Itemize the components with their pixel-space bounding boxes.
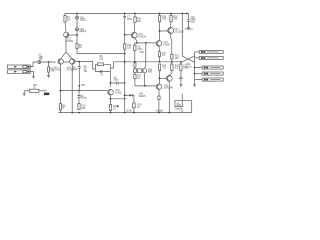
resistor R12 [124,35,132,50]
svg-text:2SА1943: 2SА1943 [164,87,174,90]
node VT8 rail [168,112,170,114]
transistor VT3 [67,59,75,72]
ground zobel [180,85,183,87]
resistor R14 [134,17,142,23]
wire R16 column [159,14,161,41]
resistor R21 [171,55,180,62]
node R19 rail [133,112,135,114]
wire drive upper [135,42,156,44]
wire R18 down [159,70,161,84]
wire VT1 collector to VT6 base [61,90,108,92]
resistor R10 [78,104,86,110]
inductor L1 [175,101,184,113]
wire crossover B [182,56,194,62]
svg-text:63В: 63В [39,58,43,61]
svg-text:ЗЗК: ЗЗК [81,107,86,110]
wire crossover A [182,56,194,62]
label speaker [186,63,192,68]
wire XS2 to ground [30,72,33,77]
diode VD6 label [139,93,146,98]
wire stub row5 [195,79,203,81]
resistor R16 [158,15,166,22]
node feedback divider mid [78,90,80,92]
node bias column top [145,42,147,44]
transistor VT6 [108,89,123,95]
node zobel [180,61,182,63]
resistor R11 [58,91,66,113]
wire VT5 collector [134,38,137,43]
connector speaker row5 [202,78,223,81]
wire R1 to VT2 [65,22,66,32]
wire stub row2 [195,57,200,59]
connector speaker row4 [202,72,223,75]
connector speaker row3 [202,66,223,69]
transistor VT7 upper output [168,28,194,34]
svg-text:2SС5200: 2SС5200 [174,30,184,33]
wire to VT8 emitter [169,70,172,75]
node rail R14 [134,13,136,15]
node top rail LED tap [76,13,78,15]
capacitor C10 [187,14,196,28]
node VT3 collector rail [71,112,73,114]
wire output down stub [181,94,183,101]
node C5 tap [110,82,112,84]
node VT6 collector split [110,98,112,100]
wire VT7 emitter [170,14,172,28]
node output line R17 [159,61,161,63]
wire output node line [114,61,183,63]
node collector leg rail [124,112,126,114]
wire VT7 collector [171,34,172,55]
node output line VT7 [171,61,173,63]
diode VD5 [78,84,86,87]
wire XS1 to input [30,62,33,67]
wire stub row3 [195,67,203,69]
diode HL1 [76,16,88,21]
wire VT8 collector [168,81,170,112]
network bias chain [133,68,152,73]
transistor VT9 bias [142,68,147,73]
svg-text:КД105: КД105 [139,95,146,98]
svg-text:КД521: КД521 [80,19,87,22]
wire rail riser right [182,101,192,113]
node VT1 collector [60,90,62,92]
svg-text:КД521: КД521 [79,30,86,33]
wire diff pair link [63,61,69,63]
capacitor C6 [77,91,87,104]
node R10 rail [78,112,80,114]
wire VT6 collector [111,95,125,99]
wire VT8 base [160,77,167,79]
wire VT10 down [158,90,160,97]
capacitor C8 miller [134,43,144,62]
transistor VT8 lower output [164,76,174,90]
node VT7 base tap [159,30,161,32]
node rail cap tap [186,13,188,15]
node bias lower [144,85,146,87]
resistor R19 [125,94,142,113]
network ground lift [23,84,50,96]
node VT8 base tap [159,77,161,79]
node diode tap [124,94,126,96]
svg-text:63В: 63В [191,21,195,24]
transistor VT10 lower driver [156,84,162,90]
svg-text:100мк: 100мк [81,97,88,100]
wire bias to lower drive [144,73,146,86]
ground R2 [47,72,50,77]
node R13 rail [110,112,112,114]
wire diff pair tail [61,52,72,59]
wire LED column [77,14,125,54]
resistor R17 [158,46,167,62]
wire stub row1 [195,51,200,53]
wire VT3 base feedback [75,62,96,69]
node C8 output line [134,61,136,63]
wire input line [33,61,56,63]
wire right vertical [181,14,183,57]
resistor R20 [170,15,178,22]
node output line cross [124,61,126,63]
node row4 [194,73,196,75]
ground C10 [187,28,190,30]
svg-text:КТ961А: КТ961А [138,35,146,38]
resistor R18 [158,64,167,70]
node rail right vertical [181,13,183,15]
node input [48,61,50,63]
transistor VT2 current source [64,32,74,43]
transistor VT5 [131,32,146,38]
connector speaker row2 [199,56,223,59]
svg-text:12,6В: 12,6В [126,110,132,113]
capacitor C7 [123,14,132,35]
wire bias column [145,43,146,68]
resistor R2 [48,62,55,73]
capacitor C5 [111,76,126,84]
wire bias left leg [134,72,136,74]
network R8 C4 feedback [95,55,110,76]
wire speaker bus [194,52,196,81]
capacitor C1 [38,53,43,63]
resistor R23 [171,62,180,71]
svg-text:КТ626: КТ626 [163,43,170,46]
svg-text:100н: 100н [183,67,189,70]
node row3 [194,67,196,69]
svg-text:100н: 100н [127,18,133,21]
resistor R4 [76,44,83,50]
resistor R1 [64,14,71,23]
wire bottom supply rail [58,112,192,114]
node feedback divider top [78,61,80,63]
svg-text:VD5: VD5 [81,84,86,87]
capacitor C11 zobel [179,71,182,85]
wire drive lower [135,85,156,87]
transistor VT4 driver [156,41,170,47]
transistor VT1 [54,59,64,72]
wire VT7 base [160,30,168,32]
wire RC to VT6 emitter [109,72,111,87]
input connector XS1 [7,65,30,68]
wire VT2 base [69,34,77,36]
wire R14 to VT5 emitter [133,14,136,33]
node wire53 junction [124,53,126,55]
wire VT5 column down [124,49,126,112]
svg-text:КТ961: КТ961 [115,92,122,95]
node VT2 base junction [76,34,78,36]
resistor R13 [109,99,118,113]
ground input shield [32,76,35,78]
svg-text:Общий: Общий [156,109,164,112]
wire VT1 collector [60,64,62,90]
node VT5 collector [136,42,138,44]
resistor R24 zobel [180,62,189,71]
wire RC to output line [110,62,113,68]
diode HL2 [76,28,87,33]
resistor R26 [134,62,136,69]
ground speaker bus [193,81,196,87]
connector speaker row1 [199,50,223,53]
node rail R20 [170,13,172,15]
wire VT2 collector to tail [65,37,67,52]
wire VT3 collector [71,64,73,112]
wire stub row4 [195,73,203,75]
svg-text:100п: 100п [114,78,120,81]
svg-text:КТ639: КТ639 [67,40,74,43]
svg-text:63В: 63В [140,51,144,54]
node rail R16 [159,13,161,15]
input connector XS2 [7,70,30,73]
node rail C7 [124,13,126,15]
wire VT5 base [125,34,132,36]
node VT5 base [124,34,126,36]
wire top supply rail [65,13,189,15]
capacitor C3 divider [72,62,88,91]
